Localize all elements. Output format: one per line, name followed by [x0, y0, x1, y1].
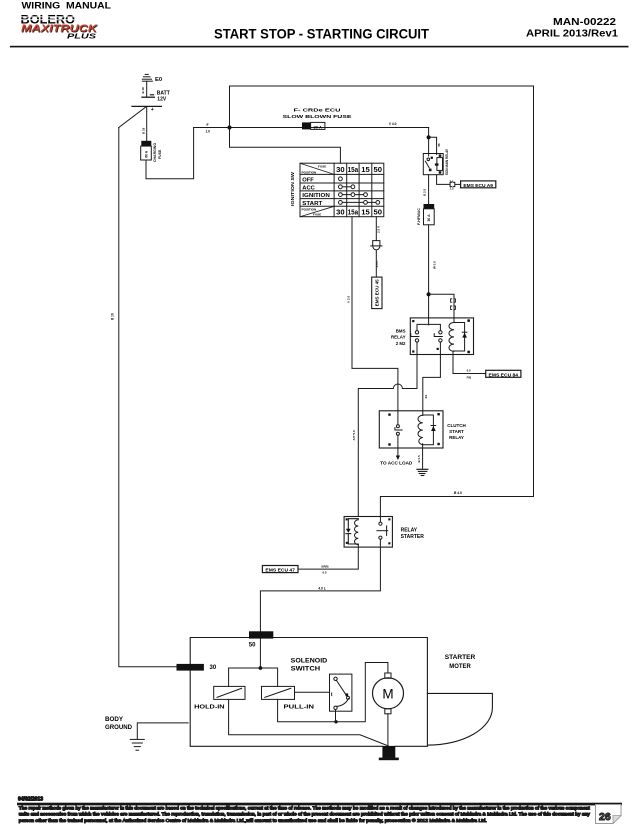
- motor bottom terminal: [385, 709, 391, 714]
- svg-text:F: F: [207, 123, 209, 127]
- svg-text:OFF: OFF: [302, 177, 314, 183]
- wire fuse to BMS relay: [428, 225, 430, 325]
- wire left rail (battery cable to starter terminal 30): [119, 128, 177, 667]
- svg-text:FUSE: FUSE: [318, 165, 326, 169]
- ground E0: [142, 74, 152, 81]
- svg-text:F/B: F/B: [467, 376, 472, 380]
- motor top terminal: [385, 673, 391, 678]
- svg-text:V 2.0: V 2.0: [346, 295, 350, 303]
- svg-text:B 16: B 16: [111, 313, 115, 320]
- svg-text:SOLENOID: SOLENOID: [291, 658, 328, 664]
- svg-text:26: 26: [599, 811, 611, 823]
- svg-text:+: +: [151, 107, 154, 113]
- svg-text:EMS ECU 84: EMS ECU 84: [489, 372, 519, 377]
- svg-text:RELAY: RELAY: [449, 435, 464, 440]
- relay BMS contact 1: [411, 320, 419, 353]
- logo MAXITRUCK (red italic): [21, 24, 99, 36]
- wire clutch-start coil to ground: [422, 444, 424, 469]
- svg-text:0.5: 0.5: [323, 570, 327, 574]
- relay label RELAY STARTER: [401, 528, 425, 540]
- junction node solenoid switch output: [334, 720, 337, 723]
- svg-text:PULL-IN: PULL-IN: [284, 704, 315, 710]
- junction main bus node: [227, 125, 231, 129]
- fuse F-ECU slow blow 30A: [302, 122, 325, 129]
- svg-text:RELAY: RELAY: [401, 528, 418, 534]
- svg-text:60 A: 60 A: [145, 150, 149, 158]
- wire BMS contacts tee: [417, 324, 440, 330]
- svg-text:BR/B: BR/B: [322, 564, 329, 568]
- junction node ECM relay feed: [427, 135, 431, 139]
- battery BATT 12V: [132, 95, 161, 113]
- footer rule: [18, 803, 622, 805]
- table contact OFF-30: [339, 177, 343, 181]
- svg-text:30 A: 30 A: [314, 124, 322, 129]
- svg-text:B 16: B 16: [141, 127, 145, 134]
- relay RELAY STARTER box: [344, 517, 392, 548]
- svg-text:EMS ECU 47: EMS ECU 47: [265, 568, 295, 573]
- svg-text:30: 30: [336, 165, 345, 174]
- arrow TO ACC LOAD: [396, 456, 400, 461]
- coil PULL-IN: [262, 686, 295, 699]
- connector box EMS ECU 84: [486, 370, 521, 377]
- connector box EMS ECU 45: [372, 277, 382, 309]
- svg-text:BMS: BMS: [396, 328, 406, 333]
- wire ECM relay to fuse F-HFM/AC: [428, 175, 430, 204]
- relay ECM coil: [435, 154, 443, 173]
- relay ECM switch: [425, 157, 433, 172]
- table contacts ACC row: [339, 185, 355, 189]
- relay CLUTCH START box: [379, 411, 443, 448]
- wire tee to hold-in and pull-in: [229, 668, 278, 686]
- connector box EMS ECU A9: [461, 181, 496, 188]
- svg-text:2A: 2A: [424, 394, 428, 399]
- wire motor to ground stud: [387, 714, 389, 746]
- label SOLENOID SWITCH: [291, 658, 328, 672]
- svg-text:1.0: 1.0: [206, 129, 211, 133]
- svg-text:50: 50: [374, 165, 383, 174]
- svg-text:15: 15: [361, 208, 370, 217]
- wire top rail up and right: [230, 86, 534, 497]
- svg-text:50: 50: [249, 642, 256, 648]
- solenoid switch box: [330, 674, 352, 711]
- starter motor assembly box: [190, 638, 427, 747]
- svg-text:B 2.5: B 2.5: [423, 188, 427, 196]
- wire contact to ACC load arrow: [397, 435, 399, 455]
- label BODY GROUND: [105, 717, 133, 731]
- ignition switch table: [300, 163, 384, 217]
- table footer terminals 30 15a 15 50: [336, 208, 382, 217]
- wire label BR/B 0.5: [322, 564, 329, 574]
- svg-text:30 A: 30 A: [427, 214, 431, 222]
- svg-text:86: 86: [437, 143, 441, 147]
- wire battery positive diagonal to left rail: [119, 107, 146, 128]
- svg-text:SWITCH: SWITCH: [291, 667, 321, 673]
- relay label CLUTCH START RELAY: [447, 423, 466, 440]
- terminal 30: [177, 664, 204, 671]
- svg-text:FUSE: FUSE: [313, 213, 321, 217]
- wire branch to ECM relay coil: [429, 137, 437, 154]
- svg-text:TO ACC LOAD: TO ACC LOAD: [380, 461, 412, 466]
- svg-text:ECM MAIN RELAY: ECM MAIN RELAY: [445, 148, 449, 175]
- svg-text:GROUND: GROUND: [105, 725, 133, 731]
- ground stud starter: [379, 746, 399, 760]
- wire relay starter output to solenoid terminal 50: [260, 539, 380, 631]
- svg-text:person other than the trained: person other than the trained personnel,…: [19, 818, 487, 823]
- wire ACC feed from ignition 15a: [352, 217, 398, 425]
- svg-text:B 0.5: B 0.5: [417, 455, 421, 463]
- wire branch to BMS coil: [429, 294, 454, 322]
- header rule: [10, 46, 629, 48]
- wire battery negative to ground: [146, 81, 148, 96]
- svg-text:START: START: [449, 429, 464, 434]
- wire connector to EMS ECU 45: [375, 250, 377, 277]
- svg-text:B 16: B 16: [141, 87, 145, 94]
- svg-text:STARTER: STARTER: [401, 534, 425, 540]
- wire pull-in to solenoid switch: [295, 691, 330, 693]
- wire ignition switch feed: [230, 128, 341, 164]
- fuse label CHARGING FUSE: [153, 143, 162, 162]
- svg-text:RELAY: RELAY: [391, 335, 406, 340]
- wire label F 1.0: [206, 123, 211, 133]
- svg-text:IGNITION SW: IGNITION SW: [290, 171, 295, 206]
- ground body: [130, 739, 144, 750]
- wire main bus down to ECM relay: [428, 128, 430, 157]
- svg-text:30: 30: [210, 665, 217, 671]
- relay K1 ECM main relay box: [423, 154, 443, 175]
- svg-text:IGNITION: IGNITION: [302, 193, 330, 199]
- logo BOLERO: [21, 12, 76, 26]
- table contacts START row: [339, 201, 380, 205]
- connector 2A: [450, 179, 455, 190]
- svg-text:PLUS: PLUS: [67, 33, 97, 40]
- wire BMS contact2 output to clutch start relay coil: [423, 342, 441, 415]
- ground clutch-start relay: [417, 469, 428, 475]
- connector marks on coil wire: [451, 299, 456, 310]
- relay starter coil: [346, 519, 359, 545]
- fuse F-HFM/AC 30A: [424, 204, 435, 225]
- wire switch to bottom junction: [335, 710, 337, 722]
- svg-text:W 0.5: W 0.5: [432, 261, 436, 269]
- table contacts IGNITION row: [339, 193, 368, 197]
- svg-text:EMS ECU 45: EMS ECU 45: [375, 279, 380, 307]
- wire hold-in to ground stud: [229, 699, 389, 746]
- svg-text:START STOP - STARTING CIRCUIT: START STOP - STARTING CIRCUIT: [214, 27, 430, 42]
- svg-text:FUSE: FUSE: [158, 149, 162, 159]
- svg-text:E0: E0: [155, 77, 162, 83]
- wire pull-in bottom: [278, 663, 388, 722]
- wire right rail to starter relay contact: [380, 497, 533, 523]
- starter motor nose outline: [427, 693, 492, 745]
- svg-text:APRIL 2013/Rev1: APRIL 2013/Rev1: [526, 29, 618, 40]
- table footer diagonal POSITION/FUSE: [300, 206, 334, 216]
- coil HOLD-IN: [214, 686, 245, 699]
- solenoid switch contact: [332, 677, 350, 709]
- junction node BMS feed: [427, 292, 431, 296]
- svg-text:CLUTCH: CLUTCH: [447, 423, 466, 428]
- relay clutch-start coil: [418, 415, 433, 445]
- relay label BMS RELAY 2 M2: [391, 328, 406, 346]
- svg-text:BODY: BODY: [105, 717, 123, 723]
- svg-text:1.0 L: 1.0 L: [375, 260, 379, 267]
- fuse F-CHARGING 60A: [141, 141, 152, 160]
- table header terminals 30 15a 15 50: [336, 165, 382, 174]
- svg-text:04/02/2013: 04/02/2013: [18, 796, 43, 802]
- svg-text:1.5: 1.5: [450, 186, 454, 190]
- svg-text:2 M2: 2 M2: [396, 341, 406, 346]
- fuse label F- CRDe ECU SLOW BLOWN FUSE: [283, 108, 352, 119]
- diode clutch-start flyback: [431, 426, 436, 432]
- svg-text:50: 50: [374, 208, 383, 217]
- pin marks clutch-start relay: [388, 413, 440, 446]
- relay clutch-start ACC contact: [395, 425, 402, 436]
- svg-text:STARTER: STARTER: [445, 655, 476, 661]
- wire ECM coil to EMS ECU A9: [437, 175, 450, 185]
- junction node coils feed: [259, 666, 263, 670]
- svg-text:15a: 15a: [348, 165, 359, 174]
- svg-text:POSITION: POSITION: [302, 207, 318, 211]
- svg-text:0.5: 0.5: [467, 369, 471, 373]
- svg-text:15a: 15a: [348, 208, 359, 217]
- page number box: [596, 805, 622, 824]
- wire charging fuse to main bus: [146, 128, 194, 179]
- relay BMS contact 2: [434, 331, 442, 350]
- connector inline (50 wire): [371, 241, 382, 250]
- svg-text:MAN-00222: MAN-00222: [553, 17, 616, 28]
- svg-text:EMS ECU A9: EMS ECU A9: [463, 183, 493, 188]
- relay BMS coil: [449, 319, 470, 353]
- svg-text:START: START: [302, 201, 323, 207]
- diode BMS flyback: [462, 332, 467, 337]
- motor M1 starter: [373, 678, 404, 709]
- table header diagonal FUSE/POSITION: [300, 163, 334, 174]
- wire label 0.5 F/B: [467, 369, 472, 380]
- svg-text:B 4.0: B 4.0: [454, 491, 462, 495]
- wire BMS coil to EMS ECU 84: [453, 351, 486, 374]
- svg-text:SLOW BLOWN FUSE: SLOW BLOWN FUSE: [283, 114, 352, 119]
- svg-text:The repair methods given by th: The repair methods given by the manufact…: [19, 806, 591, 811]
- wire BMS contact1 output with hop to starter relay coil: [358, 342, 417, 516]
- svg-text:A/T 5.0: A/T 5.0: [352, 430, 356, 440]
- relay BMS RELAY 2 M2 box: [410, 318, 473, 355]
- terminal 50: [249, 631, 273, 638]
- svg-text:F- CRDe ECU: F- CRDe ECU: [294, 108, 341, 113]
- svg-text:15: 15: [361, 165, 370, 174]
- svg-text:V 4.0: V 4.0: [389, 122, 397, 126]
- svg-text:units and accessories from whi: units and accessories from which the veh…: [19, 812, 591, 817]
- pin marks relay starter: [346, 518, 391, 544]
- wire body ground: [137, 723, 188, 740]
- wire relay starter coil to EMS ECU 47: [298, 545, 358, 569]
- svg-text:12V: 12V: [157, 96, 167, 102]
- svg-text:ACC: ACC: [302, 185, 315, 191]
- svg-text:MOTER: MOTER: [449, 664, 471, 670]
- svg-text:WIRING MANUAL: WIRING MANUAL: [22, 1, 112, 11]
- svg-text:F-HFM/AC: F-HFM/AC: [417, 208, 421, 225]
- svg-text:30: 30: [336, 208, 345, 217]
- relay starter contact: [377, 522, 388, 539]
- wire battery positive down to charging fuse: [146, 106, 148, 140]
- connector box EMS ECU 47: [262, 566, 298, 573]
- wire main positive bus: [194, 127, 429, 129]
- svg-text:CHARGING: CHARGING: [153, 143, 157, 162]
- wire start feed from ignition 50: [375, 217, 377, 241]
- svg-text:M: M: [382, 686, 393, 701]
- svg-text:POSITION: POSITION: [302, 170, 318, 174]
- battery label: [157, 91, 170, 103]
- svg-text:4.0 L: 4.0 L: [318, 587, 326, 591]
- svg-text:2.5 V: 2.5 V: [377, 226, 381, 233]
- svg-text:HOLD-IN: HOLD-IN: [194, 704, 225, 710]
- label STARTER MOTER: [445, 655, 476, 670]
- wire terminal 50 to coils: [259, 639, 261, 668]
